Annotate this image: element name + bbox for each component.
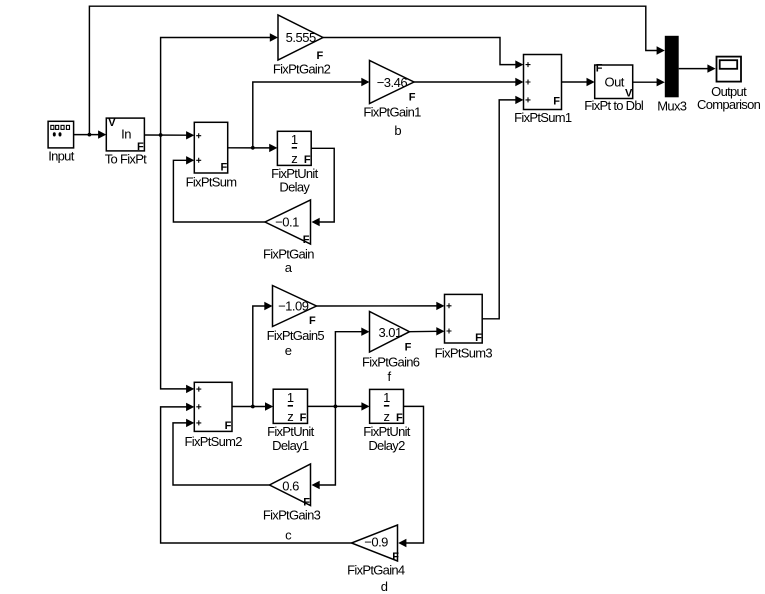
block FixPtSum3	[435, 294, 493, 360]
gain FixPtGain2	[273, 15, 331, 77]
svg-text:FixPtSum1: FixPtSum1	[514, 110, 572, 125]
svg-text:F: F	[225, 420, 232, 432]
wire FixPtGain6 -> FixPtSum3 input2	[410, 327, 445, 335]
node junction after Delay1	[334, 405, 338, 409]
wire branch up to FixPtGain1	[253, 78, 370, 148]
svg-text:d: d	[381, 579, 388, 594]
node junction after To FixPt	[159, 133, 163, 137]
wire Mux3 -> Output Comparison	[679, 64, 716, 72]
node junction after FixPtSum	[251, 146, 255, 150]
svg-text:F: F	[220, 162, 227, 174]
wire Input -> To FixPt	[74, 130, 107, 138]
block FixPtUnit Delay	[271, 131, 319, 194]
svg-text:V: V	[108, 117, 116, 129]
gain FixPtGain a (points left)	[263, 200, 314, 275]
svg-text:F: F	[409, 92, 416, 104]
wire FixPtSum -> FixPtUnit Delay	[228, 144, 278, 152]
wire To FixPt -> FixPtSum input1	[144, 131, 194, 139]
svg-text:F: F	[553, 95, 560, 107]
svg-text:z: z	[287, 409, 293, 424]
wire branch up to FixPtGain5	[253, 302, 273, 407]
svg-text:To FixPt: To FixPt	[105, 152, 147, 167]
svg-text:Comparison: Comparison	[697, 97, 761, 112]
svg-text:b: b	[394, 123, 401, 138]
svg-text:FixPtSum3: FixPtSum3	[435, 345, 493, 360]
svg-text:In: In	[121, 127, 131, 142]
svg-text:−0.1: −0.1	[275, 215, 299, 230]
svg-text:FixPt to Dbl: FixPt to Dbl	[584, 98, 644, 113]
svg-text:F: F	[392, 551, 399, 563]
block FixPtUnit Delay2	[363, 389, 411, 453]
svg-text:FixPtGain5: FixPtGain5	[267, 328, 325, 343]
svg-text:F: F	[300, 412, 307, 424]
wire FixPtGain5 -> FixPtSum3 input1	[317, 302, 445, 310]
wire branch down to FixPtSum2 input1	[161, 135, 195, 393]
svg-text:Delay: Delay	[279, 180, 310, 195]
wire branch up to FixPtGain6	[335, 328, 369, 407]
svg-text:Out: Out	[604, 75, 624, 90]
svg-text:F: F	[309, 315, 316, 327]
svg-text:FixPtSum: FixPtSum	[186, 174, 237, 189]
svg-text:1: 1	[383, 390, 390, 405]
wire branch up to FixPtGain2	[161, 33, 278, 135]
svg-text:F: F	[596, 63, 603, 75]
svg-text:e: e	[285, 343, 292, 358]
svg-text:3.01: 3.01	[378, 325, 402, 340]
block Mux3 (black bar)	[657, 36, 686, 114]
block Output Comparison (scope)	[697, 57, 761, 112]
svg-text:Delay2: Delay2	[368, 438, 405, 453]
svg-text:z: z	[384, 409, 390, 424]
block FixPtUnit Delay1	[267, 389, 315, 453]
svg-text:FixPtGain3: FixPtGain3	[263, 508, 321, 523]
svg-text:−1.09: −1.09	[278, 299, 309, 314]
wire Delay2 -> FixPtGain4 (feedback down)	[398, 406, 423, 547]
svg-text:FixPtGain6: FixPtGain6	[362, 355, 420, 370]
wire FixPtGain1 -> FixPtSum1 input2	[414, 78, 524, 86]
svg-text:FixPtGain2: FixPtGain2	[273, 62, 331, 77]
svg-text:F: F	[303, 234, 310, 246]
svg-text:F: F	[475, 332, 482, 344]
wire branch down to FixPtGain3 input	[312, 406, 336, 489]
block FixPtSum2	[185, 382, 243, 449]
wire FixPtGain3 -> FixPtSum2 input3	[173, 419, 270, 485]
wire branch up and across top to Mux3 input 1	[89, 6, 664, 134]
svg-text:F: F	[396, 412, 403, 424]
svg-text:F: F	[316, 50, 323, 62]
wire FixPtUnit Delay -> FixPtGain a (feedback)	[311, 148, 334, 226]
block Input (signal source icon)	[48, 121, 75, 163]
node junction on Input wire	[88, 133, 92, 137]
svg-text:0.6: 0.6	[282, 478, 299, 493]
block To FixPt	[105, 117, 147, 166]
wire FixPt to Dbl -> Mux3 input2	[633, 78, 665, 86]
svg-text:Mux3: Mux3	[657, 99, 686, 114]
gain FixPtGain4 (points left)	[347, 525, 405, 594]
svg-text:1: 1	[287, 390, 294, 405]
svg-text:Delay1: Delay1	[272, 438, 309, 453]
wire FixPtSum3 -> FixPtSum1 input3	[482, 96, 523, 319]
node junction after FixPtSum2	[251, 405, 255, 409]
block FixPt to Dbl	[584, 63, 644, 113]
block FixPtSum	[186, 122, 237, 189]
gain FixPtGain5	[267, 286, 325, 358]
gain FixPtGain3 (points left)	[263, 464, 321, 542]
wire FixPtGain4 -> FixPtSum2 input2	[161, 403, 352, 543]
block FixPtSum1	[514, 55, 572, 126]
svg-text:F: F	[304, 154, 311, 166]
svg-text:FixPtGain1: FixPtGain1	[363, 105, 421, 120]
svg-text:F: F	[303, 496, 310, 508]
svg-text:FixPtSum2: FixPtSum2	[185, 434, 243, 449]
svg-text:Input: Input	[48, 149, 75, 164]
svg-text:z: z	[291, 151, 297, 166]
wire FixPtGain2 -> FixPtSum1 input1	[323, 38, 524, 69]
svg-text:F: F	[405, 342, 412, 354]
gain FixPtGain1	[363, 61, 421, 139]
svg-text:5.555: 5.555	[286, 30, 316, 45]
wire FixPtSum1 -> FixPt to Dbl	[562, 78, 595, 86]
gain FixPtGain6	[362, 312, 420, 385]
svg-text:1: 1	[291, 132, 298, 147]
svg-text:FixPtGain4: FixPtGain4	[347, 563, 405, 578]
svg-text:−0.9: −0.9	[364, 534, 388, 549]
wire FixPtGain a -> FixPtSum input2	[173, 156, 265, 222]
wire FixPtSum2 -> FixPtUnit Delay1	[232, 402, 273, 410]
svg-text:−3.46: −3.46	[377, 75, 408, 90]
wire FixPtUnit Delay1 -> FixPtUnit Delay2	[308, 402, 370, 410]
